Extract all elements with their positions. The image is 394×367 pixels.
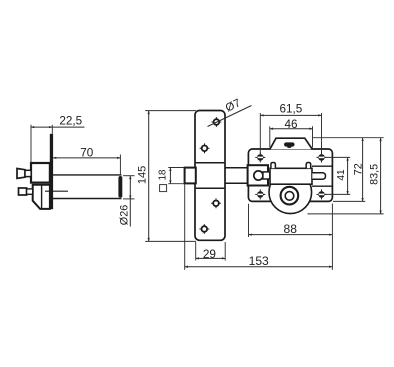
keyhole cover oval [284, 142, 295, 146]
svg-text:72: 72 [352, 163, 364, 175]
plate hole 2 (upper left) [200, 143, 210, 153]
svg-text:61,5: 61,5 [280, 102, 303, 115]
lower knob cap [19, 188, 27, 195]
bolt cylinder end cap [118, 176, 122, 198]
svg-text:41: 41 [336, 169, 347, 181]
svg-text:145: 145 [136, 166, 148, 184]
side plate bar [50, 134, 53, 209]
lower knob neck [27, 189, 33, 194]
lower body interior line [41, 185, 43, 209]
long plate [195, 111, 225, 241]
dimension square18 [157, 168, 184, 192]
dimension 22,5 [31, 115, 85, 163]
guide band top line [196, 162, 225, 164]
svg-text:70: 70 [80, 146, 94, 159]
bolt cylinder top line [53, 174, 122, 176]
dimension Ø26 [119, 176, 135, 227]
upper knob cap [17, 169, 25, 179]
dome cover [270, 138, 313, 149]
bolt block notch [263, 172, 270, 179]
svg-text:153: 153 [249, 254, 269, 268]
screw hole top-right [317, 152, 327, 162]
pocket top line [312, 165, 332, 167]
svg-text:46: 46 [284, 118, 297, 131]
upper knob neck [25, 170, 31, 176]
svg-text:18: 18 [157, 169, 168, 180]
guide bracket [270, 168, 312, 184]
lower knob axis tick [45, 190, 68, 192]
keyhole cover tail [287, 146, 291, 148]
bolt cylinder bottom line [53, 198, 122, 200]
screw hole bottom-left [255, 189, 265, 199]
dimension 153 [185, 185, 333, 270]
svg-text:Ø26: Ø26 [119, 205, 131, 225]
body plate [248, 149, 332, 201]
square shank stub [185, 168, 196, 184]
lower housing body with chamfer [33, 185, 50, 209]
bolt block knob circle [254, 171, 263, 180]
svg-text:83,5: 83,5 [368, 164, 380, 185]
cylinder rosette outer circle [269, 171, 312, 214]
tongue [312, 173, 325, 180]
plate hole 3 (lower right) [211, 198, 221, 208]
cylinder ring [281, 187, 299, 205]
cylinder inner ring [285, 192, 294, 201]
dimension 46 [270, 118, 313, 147]
svg-text:29: 29 [203, 247, 216, 261]
bracket right tab [306, 163, 311, 169]
bolt block [248, 165, 268, 185]
screw hole top-left [255, 152, 265, 162]
dimension 61,5 [260, 102, 321, 154]
upper housing box [31, 163, 50, 183]
dimension 41 [326, 157, 351, 194]
plate hole 1 (top right, Ø7) [212, 117, 222, 127]
plate hole 4 (bottom left) [199, 224, 209, 234]
dimension 145 [136, 111, 196, 242]
dimension 72 [333, 138, 365, 202]
bar to lock body top line [225, 167, 248, 169]
guide band bottom line [196, 187, 225, 189]
dimension 83,5 [308, 138, 384, 214]
svg-text:22,5: 22,5 [59, 115, 82, 128]
bar to lock body bottom line [225, 182, 248, 184]
dimension 70 [53, 146, 120, 174]
svg-text:88: 88 [283, 222, 297, 236]
leader and label Ø7 [208, 97, 252, 126]
dimension 88 [249, 204, 333, 237]
pocket bottom line [312, 185, 332, 187]
screw hole bottom-right [317, 189, 327, 199]
bracket left tab [271, 163, 276, 169]
dimension 29 [196, 242, 226, 261]
